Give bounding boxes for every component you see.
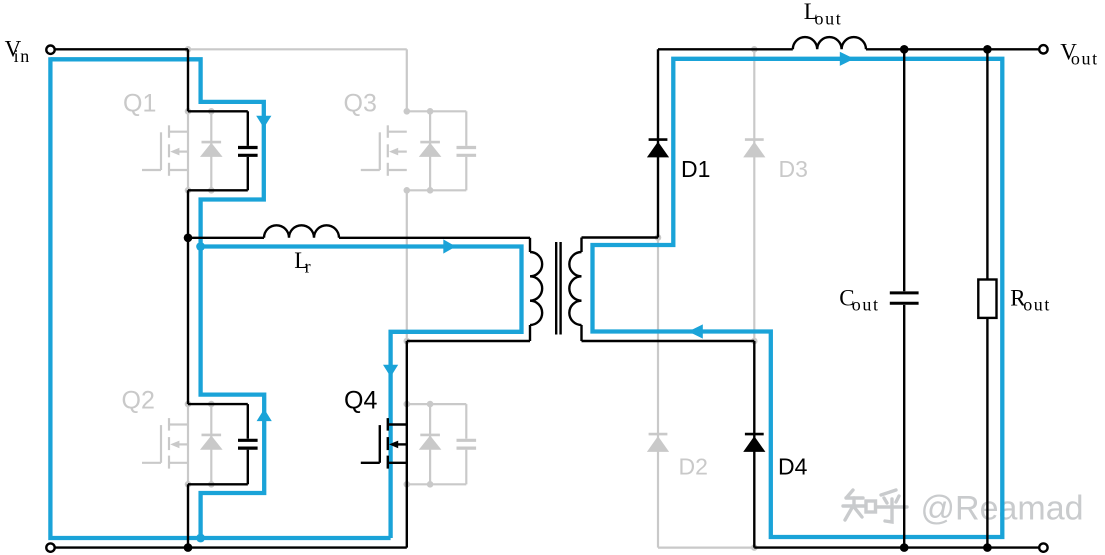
- svg-text:out: out: [1071, 49, 1099, 69]
- svg-text:in: in: [14, 46, 31, 66]
- svg-text:D4: D4: [778, 453, 808, 479]
- svg-text:D3: D3: [779, 156, 808, 182]
- svg-text:out: out: [852, 294, 880, 314]
- svg-text:Q2: Q2: [122, 386, 155, 414]
- svg-text:r: r: [305, 257, 313, 277]
- svg-text:Q4: Q4: [344, 387, 377, 415]
- svg-text:D2: D2: [679, 453, 708, 479]
- svg-text:D1: D1: [681, 156, 710, 182]
- svg-text:Q1: Q1: [123, 90, 156, 118]
- svg-text:out: out: [1023, 294, 1051, 314]
- svg-text:Q3: Q3: [344, 90, 377, 118]
- svg-text:out: out: [815, 9, 843, 29]
